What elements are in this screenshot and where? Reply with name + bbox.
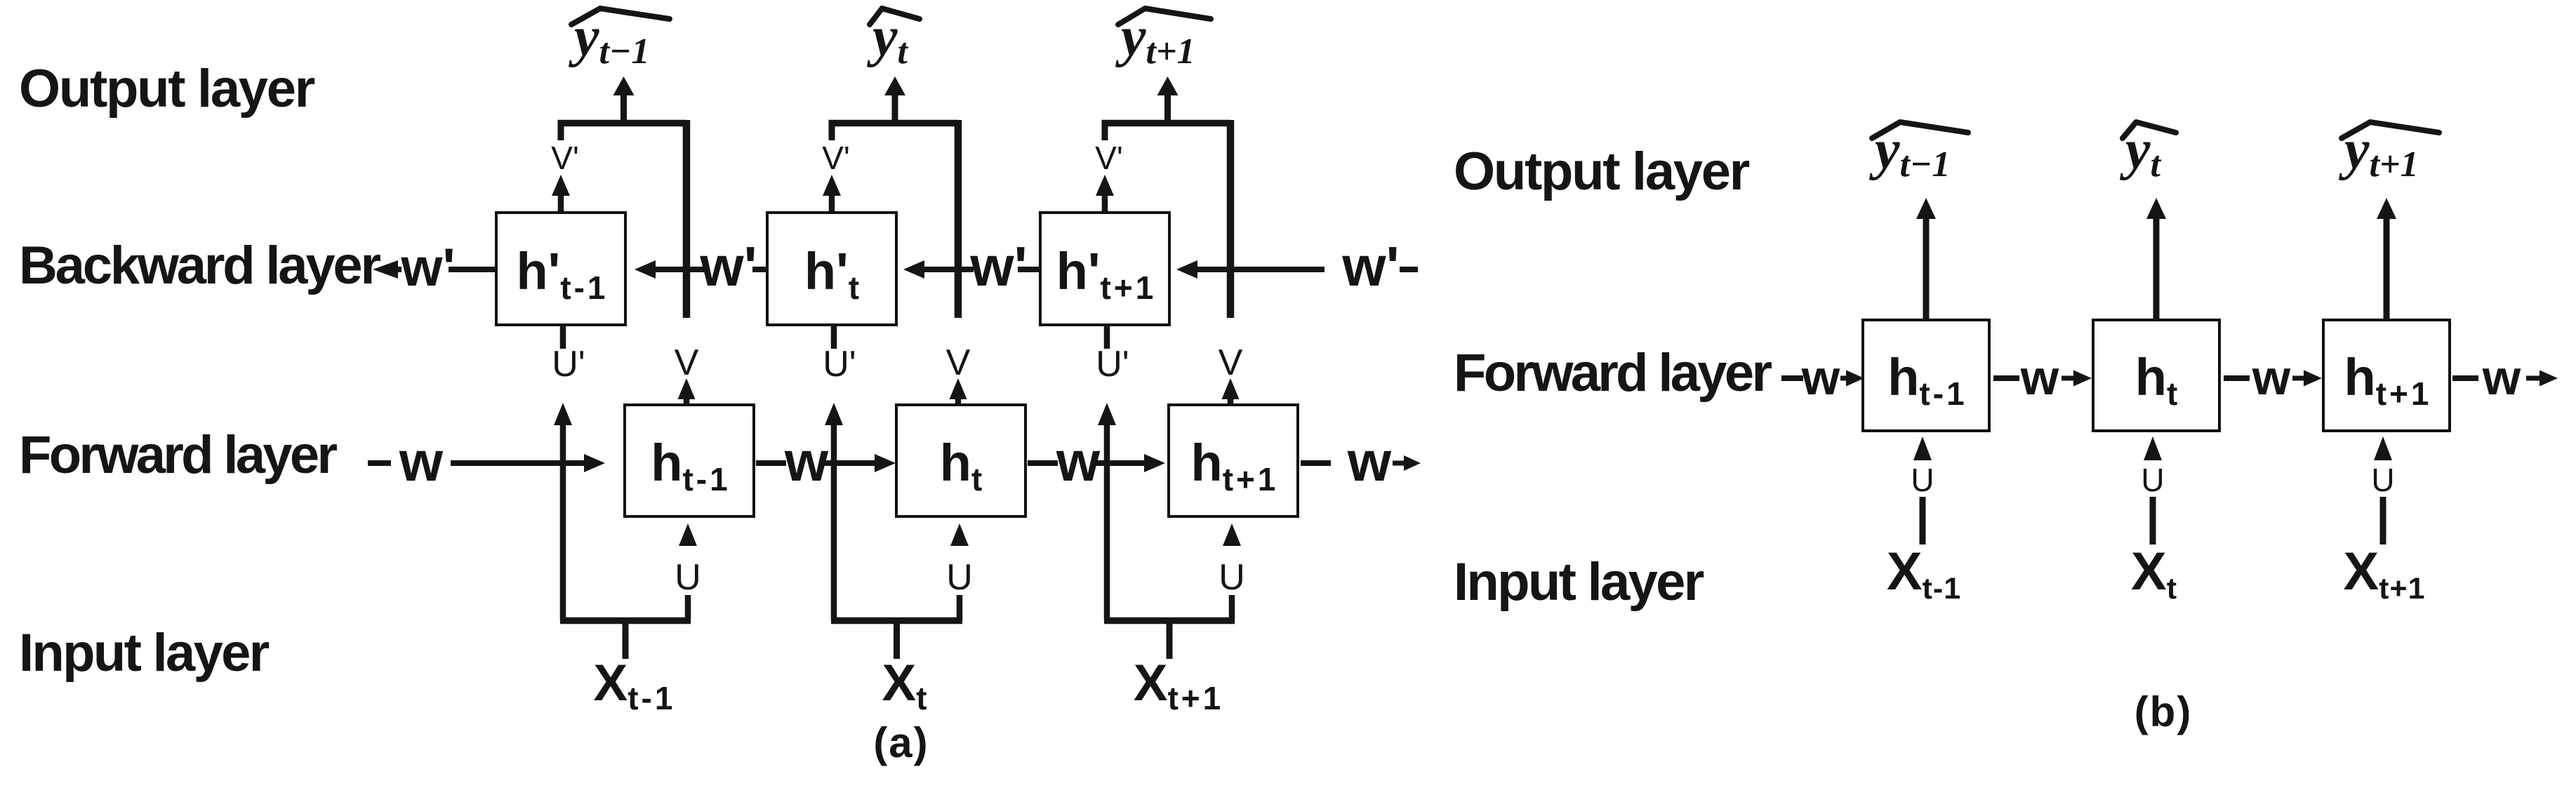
arrow U' t+1 (a) [1098, 403, 1116, 620]
svg-text:w: w [399, 430, 444, 493]
wire input connector t-1 (a) [560, 621, 691, 660]
wire U' stub t (a) [831, 325, 837, 349]
svg-text:V: V [1219, 342, 1243, 383]
box h't-1 (a) [496, 213, 625, 325]
arrow U t-1 (b) [1913, 436, 1932, 460]
svg-text:U: U [2141, 462, 2164, 498]
arrow w rightmost (b) [2526, 370, 2558, 387]
svg-text:U': U' [823, 344, 856, 385]
svg-text:Backward layer: Backward layer [19, 236, 381, 295]
arrow U' t (a) [825, 403, 843, 620]
svg-text:w: w [1056, 430, 1101, 493]
arrow V t-1 (a) [678, 378, 696, 405]
arrow U t+1 (b) [2374, 436, 2392, 460]
box ht-1 (a) [625, 405, 754, 516]
svg-text:Output layer: Output layer [19, 59, 315, 119]
svg-text:U: U [2371, 462, 2394, 498]
label yhat t (b) [2119, 119, 2176, 185]
svg-text:w: w [1347, 430, 1392, 493]
wire w dash after h t+1 (a) [1301, 460, 1331, 466]
wire U lead t-1 (a) [685, 595, 691, 620]
svg-text:Input layer: Input layer [19, 623, 270, 683]
wire U lead t (b) [2150, 497, 2156, 545]
wire U lead t+1 (b) [2380, 497, 2386, 545]
wire U' stub t-1 (a) [560, 325, 566, 349]
svg-text:V': V' [1095, 140, 1122, 176]
svg-text:w: w [1801, 350, 1840, 405]
svg-text:w: w [2482, 350, 2521, 405]
wire w' dash t (a) [752, 267, 767, 272]
svg-text:Forward layer: Forward layer [19, 425, 337, 485]
wire w dash after h t (a) [1028, 460, 1058, 466]
svg-text:U: U [1911, 462, 1934, 498]
svg-text:w: w [2252, 350, 2291, 405]
svg-text:(a): (a) [873, 719, 929, 766]
svg-text:w': w' [969, 235, 1027, 298]
svg-text:Output layer: Output layer [1454, 142, 1750, 201]
svg-text:Forward layer: Forward layer [1454, 343, 1772, 403]
box ht (b) [2093, 320, 2219, 431]
svg-text:U: U [675, 557, 701, 598]
label yhat t+1 (a) [1115, 6, 1211, 72]
wire w dash leftmost (a) [368, 460, 391, 466]
arrow output yhat t+1 (a) [1157, 76, 1179, 120]
arrow w into h t+1 (a) [1095, 454, 1165, 472]
wire w dash leftmost (b) [1781, 375, 1803, 381]
arrow V t+1 (a) [1222, 378, 1240, 405]
arrow V' t (a) [823, 175, 841, 213]
wire output bracket t+1 (a) [1102, 120, 1231, 318]
arrow output yhat t-1 (b) [1916, 198, 1936, 320]
svg-text:V: V [946, 342, 971, 383]
wire U lead t+1 (a) [1229, 595, 1235, 620]
arrow output yhat t+1 (b) [2377, 198, 2396, 320]
arrow U t (b) [2144, 436, 2162, 460]
wire w dash t/t+1 (b) [2224, 375, 2250, 381]
label yhat t+1 (b) [2338, 119, 2439, 185]
label yhat t-1 (b) [1868, 119, 1968, 185]
svg-text:w': w' [400, 238, 455, 298]
svg-text:(b): (b) [2135, 688, 2193, 735]
wire output bracket t (a) [829, 120, 959, 318]
svg-text:U': U' [552, 344, 585, 385]
label yhat t (a) [866, 6, 919, 72]
arrow V' t+1 (a) [1096, 175, 1114, 213]
arrow output yhat t-1 (a) [613, 76, 635, 120]
wire input connector t (a) [831, 621, 962, 660]
arrow w' t (a) [903, 260, 974, 279]
arrow w into h t-1 (b) [1840, 370, 1864, 387]
wire w dash t-1/t (b) [1993, 375, 2019, 381]
wire w dash after h t+1 (b) [2452, 375, 2478, 381]
arrow w' t+1 (a) [1176, 260, 1324, 279]
label yhat t-1 (a) [568, 6, 670, 72]
box ht+1 (a) [1169, 405, 1298, 516]
svg-text:w': w' [699, 235, 757, 298]
svg-text:V': V' [551, 140, 578, 176]
svg-text:w: w [2020, 350, 2059, 405]
arrow w into h t (b) [2062, 370, 2092, 387]
wire U' stub t+1 (a) [1104, 325, 1110, 349]
wire U lead t (a) [957, 595, 963, 620]
arrow U t-1 (a) [679, 523, 697, 546]
wire w' trailing dash (a) [1400, 267, 1418, 272]
box ht+1 (b) [2323, 320, 2450, 431]
wire w' leftmost to box (a) [449, 267, 496, 272]
arrow w' t-1 (a) [635, 260, 705, 279]
svg-text:U: U [946, 557, 973, 598]
arrow V t (a) [950, 378, 967, 405]
wire U lead t-1 (b) [1920, 497, 1926, 545]
svg-text:Input layer: Input layer [1454, 552, 1704, 612]
svg-text:w': w' [1341, 235, 1399, 298]
svg-text:V: V [675, 342, 699, 383]
arrow output yhat t (a) [884, 76, 905, 120]
arrow U t+1 (a) [1223, 523, 1241, 546]
box h't+1 (a) [1040, 213, 1169, 325]
arrow V' t-1 (a) [552, 175, 570, 213]
arrow w' leftmost (a) [373, 260, 398, 279]
svg-text:U': U' [1096, 344, 1129, 385]
wire w dash after h t-1 (a) [756, 460, 786, 466]
arrow w into h t-1 (a) [451, 454, 605, 472]
arrow w into h t+1 (b) [2292, 370, 2322, 387]
svg-text:U: U [1219, 557, 1245, 598]
wire w' dash t+1 (a) [1018, 267, 1040, 272]
box h't (a) [767, 213, 896, 325]
arrow U t (a) [950, 523, 969, 546]
arrow output yhat t (b) [2146, 198, 2166, 320]
svg-text:w: w [784, 430, 829, 493]
arrow U' t-1 (a) [554, 403, 572, 620]
arrow w into h t (a) [823, 454, 896, 472]
box ht-1 (b) [1863, 320, 1989, 431]
box ht (a) [896, 405, 1025, 516]
svg-text:V': V' [822, 140, 849, 176]
wire output bracket t-1 (a) [558, 120, 687, 318]
arrow w rightmost (a) [1393, 455, 1421, 471]
wire input connector t+1 (a) [1104, 621, 1235, 660]
